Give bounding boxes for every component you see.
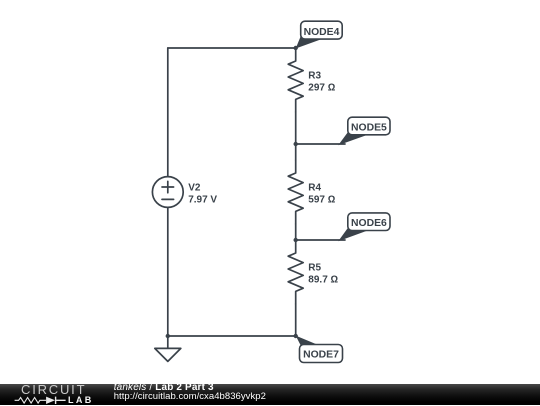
node C junction dot NODE6 — [294, 238, 298, 242]
ground — [155, 336, 181, 361]
NODE5 flag pointer — [338, 131, 368, 146]
svg-text:NODE5: NODE5 — [351, 122, 387, 133]
wire node5 stub — [296, 143, 345, 145]
wire R4 to node6 — [295, 224, 297, 240]
resistor R4 — [288, 160, 303, 224]
logo diode — [46, 397, 55, 404]
NODE5 flag box — [348, 117, 390, 135]
CircuitLab logo wordmark — [21, 383, 86, 396]
resistor R3 — [288, 48, 303, 112]
wire bottom horizontal — [168, 335, 296, 337]
V2 minus sign — [162, 198, 174, 200]
NODE6 flag pointer — [338, 227, 368, 242]
svg-text:7.97 V: 7.97 V — [188, 195, 217, 206]
svg-text:R3: R3 — [308, 71, 321, 82]
CircuitLab logo symbol row (resistor, diode, LAB) — [0, 394, 100, 406]
NODE7 flag pointer — [296, 336, 318, 346]
V2 plus sign — [162, 181, 174, 193]
svg-text:597 Ω: 597 Ω — [308, 195, 335, 206]
node E junction dot ground — [166, 334, 170, 338]
NODE4 flag pointer — [296, 34, 323, 49]
svg-text:LAB: LAB — [68, 395, 94, 405]
node A junction dot NODE4 — [294, 46, 298, 50]
svg-text:R4: R4 — [308, 183, 321, 194]
svg-text:V2: V2 — [188, 183, 201, 194]
footer url line — [114, 392, 266, 402]
wire R5 to bottom — [295, 304, 297, 336]
logo resistor squiggle — [15, 398, 46, 404]
svg-text:NODE6: NODE6 — [351, 218, 387, 229]
svg-text:NODE7: NODE7 — [303, 349, 339, 360]
resistor R5 — [288, 240, 303, 304]
wire top horizontal — [168, 47, 296, 49]
footer title line — [114, 383, 214, 393]
NODE7 flag box — [300, 345, 343, 363]
footer bar — [0, 384, 540, 405]
svg-text:NODE4: NODE4 — [304, 27, 340, 38]
svg-text:89.7 Ω: 89.7 Ω — [308, 275, 338, 286]
node D junction dot NODE7 — [294, 334, 298, 338]
svg-text:297 Ω: 297 Ω — [308, 83, 335, 94]
svg-text:R5: R5 — [308, 263, 321, 274]
wire left rail lower — [167, 207, 169, 336]
wire node6 stub — [296, 239, 345, 241]
wire left rail upper — [167, 48, 169, 177]
wire R3 to node5 — [295, 112, 297, 144]
voltage source V2 circle — [152, 177, 183, 208]
NODE4 flag box — [301, 21, 343, 39]
node B junction dot NODE5 — [294, 142, 298, 146]
wire node5 to R4 — [295, 144, 297, 160]
NODE6 flag box — [348, 213, 390, 231]
